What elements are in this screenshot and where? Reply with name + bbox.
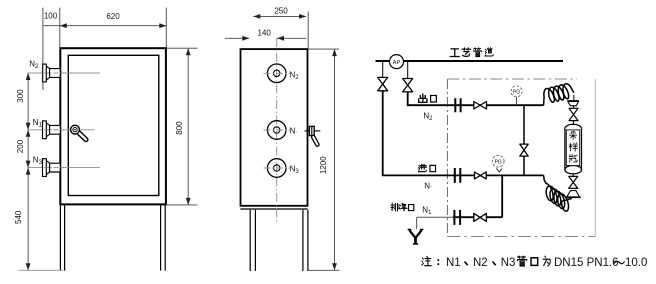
- svg-text:800: 800: [175, 121, 184, 135]
- svg-text:PG: PG: [495, 159, 502, 165]
- svg-text:N2: N2: [473, 257, 488, 269]
- svg-text:250: 250: [274, 6, 288, 15]
- svg-text:620: 620: [106, 12, 120, 21]
- svg-text:140: 140: [258, 28, 272, 37]
- svg-text:300: 300: [16, 89, 25, 103]
- svg-text:N3: N3: [501, 257, 516, 269]
- svg-text:N1: N1: [446, 257, 461, 269]
- svg-text:200: 200: [16, 139, 25, 153]
- svg-text:100: 100: [44, 12, 58, 21]
- svg-text:1200: 1200: [319, 156, 328, 174]
- svg-text:DN15 PN1.6: DN15 PN1.6: [554, 257, 619, 269]
- svg-text:540: 540: [14, 210, 23, 224]
- svg-text:AP: AP: [393, 60, 401, 66]
- svg-text:N·: N·: [424, 181, 432, 190]
- svg-text:PG: PG: [513, 90, 520, 96]
- svg-text:10.0: 10.0: [625, 257, 647, 269]
